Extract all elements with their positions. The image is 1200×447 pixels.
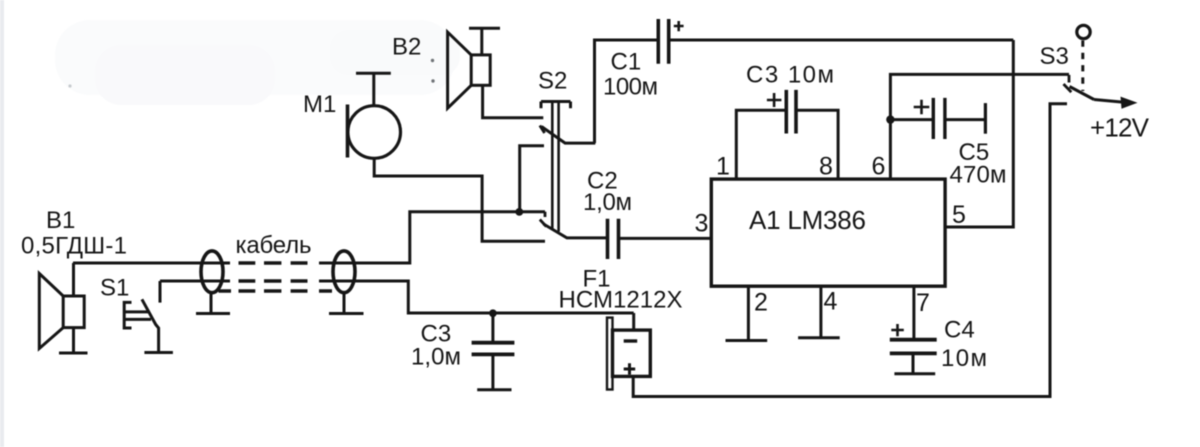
svg-text:5: 5 xyxy=(952,201,966,229)
pin 2 lead xyxy=(726,286,768,340)
svg-text:1,0м: 1,0м xyxy=(583,189,632,216)
node junction ground bus / C3 xyxy=(489,309,497,317)
cable dashed conductor 2 xyxy=(239,279,308,282)
svg-text:S3: S3 xyxy=(1040,43,1069,70)
svg-text:0,5ГДШ-1: 0,5ГДШ-1 xyxy=(21,233,127,260)
switch S2 lower pole xyxy=(540,212,607,238)
switch S3 lever xyxy=(1070,87,1095,100)
wire S2 upper throw2 from junction xyxy=(520,146,544,212)
wire B1 top lead xyxy=(72,263,75,296)
wire output rail to pin 5 xyxy=(945,40,1013,227)
label C4 xyxy=(941,317,987,373)
pin 7 lead xyxy=(912,286,915,338)
svg-text:3: 3 xyxy=(695,210,709,238)
wire C2 to pin 3 xyxy=(619,237,712,240)
scan left edge band xyxy=(0,0,4,447)
svg-text:470м: 470м xyxy=(950,162,1007,189)
node junction cable/S2 xyxy=(515,208,523,216)
switch S2 upper pole xyxy=(540,126,596,144)
terminal M1 top xyxy=(356,73,391,106)
wire B1 to connector (conductor 1) xyxy=(73,262,230,265)
capacitor C5 xyxy=(914,98,986,139)
svg-text:НСМ1212Х: НСМ1212Х xyxy=(559,287,683,314)
svg-text:1: 1 xyxy=(716,153,730,181)
buzzer F1 xyxy=(607,313,650,390)
terminal X2 ground xyxy=(329,292,364,313)
cable dashed conductor 3 xyxy=(219,289,333,292)
connector X2 (right oval) xyxy=(333,251,355,293)
wire C1 to output rail xyxy=(669,39,1013,42)
svg-text:C4: C4 xyxy=(944,317,975,344)
pin 4 lead xyxy=(798,286,840,338)
capacitor C4 xyxy=(890,324,937,374)
label B1 xyxy=(21,207,127,260)
op-amp A1 LM386 xyxy=(711,179,945,286)
wire conductor 1 to S2 lower pole xyxy=(319,212,545,263)
speaker B2 xyxy=(448,32,491,108)
connector X1 (left oval) xyxy=(201,251,223,293)
svg-text:С3 10м: С3 10м xyxy=(746,62,834,89)
svg-text:кабель: кабель xyxy=(236,232,312,259)
label C3 xyxy=(411,321,461,371)
svg-text:+12V: +12V xyxy=(1090,113,1150,143)
wire S2 upper to C1 xyxy=(595,40,659,143)
switch S3 linkage xyxy=(1081,41,1084,92)
svg-text:4: 4 xyxy=(824,288,838,316)
svg-text:B2: B2 xyxy=(392,34,421,61)
switch S3 contact xyxy=(1064,75,1072,92)
node pin6/C5 xyxy=(886,115,894,123)
switch S3 button xyxy=(1077,25,1090,38)
capacitor C3 input xyxy=(472,313,515,390)
cable dashed conductor 1 xyxy=(239,261,308,264)
pin 1 lead xyxy=(736,110,786,179)
pin 8 lead xyxy=(796,110,838,179)
speaker B1 xyxy=(39,274,84,349)
svg-text:C1: C1 xyxy=(611,49,642,76)
label C1 xyxy=(603,49,658,101)
specks near B2 xyxy=(431,59,434,62)
watermark smudge xyxy=(55,20,460,105)
wire F1 to S3 branch xyxy=(633,104,1067,397)
capacitor C1 xyxy=(658,19,683,64)
svg-text:2: 2 xyxy=(754,289,768,317)
switch S1 xyxy=(124,281,160,353)
terminal X1 ground xyxy=(196,292,230,313)
wire conductor 2 to ground bus xyxy=(319,281,634,313)
terminal B1 bottom xyxy=(59,328,88,353)
svg-text:В1: В1 xyxy=(46,207,75,234)
svg-text:6: 6 xyxy=(872,153,886,181)
wire S1 to connector (conductor 2) xyxy=(160,280,230,283)
svg-text:10м: 10м xyxy=(941,345,987,372)
svg-text:S2: S2 xyxy=(538,68,567,95)
wire +12V arrow xyxy=(1094,100,1124,103)
svg-text:7: 7 xyxy=(916,289,930,317)
svg-text:8: 8 xyxy=(819,153,833,181)
capacitor C3 gain xyxy=(767,90,796,134)
svg-text:S1: S1 xyxy=(100,275,129,302)
wire node to C5 xyxy=(890,118,932,121)
label C5 xyxy=(950,139,1007,189)
capacitor C2 xyxy=(608,219,619,259)
wire B2 to S2 upper pole xyxy=(483,85,544,117)
microphone M1 xyxy=(348,105,401,159)
label F1 xyxy=(559,266,683,314)
wire M1 to S2 lower pole xyxy=(374,158,545,241)
label C2 xyxy=(583,168,632,217)
terminal S1 bottom xyxy=(144,351,173,354)
pin 6 lead xyxy=(890,74,1069,179)
svg-text:М1: М1 xyxy=(303,91,336,118)
svg-text:100м: 100м xyxy=(603,74,658,101)
switch S2 actuator xyxy=(541,102,571,232)
svg-text:А1 LM386: А1 LM386 xyxy=(749,205,866,235)
terminal B2 top xyxy=(469,28,500,55)
svg-text:1,0м: 1,0м xyxy=(411,343,461,370)
